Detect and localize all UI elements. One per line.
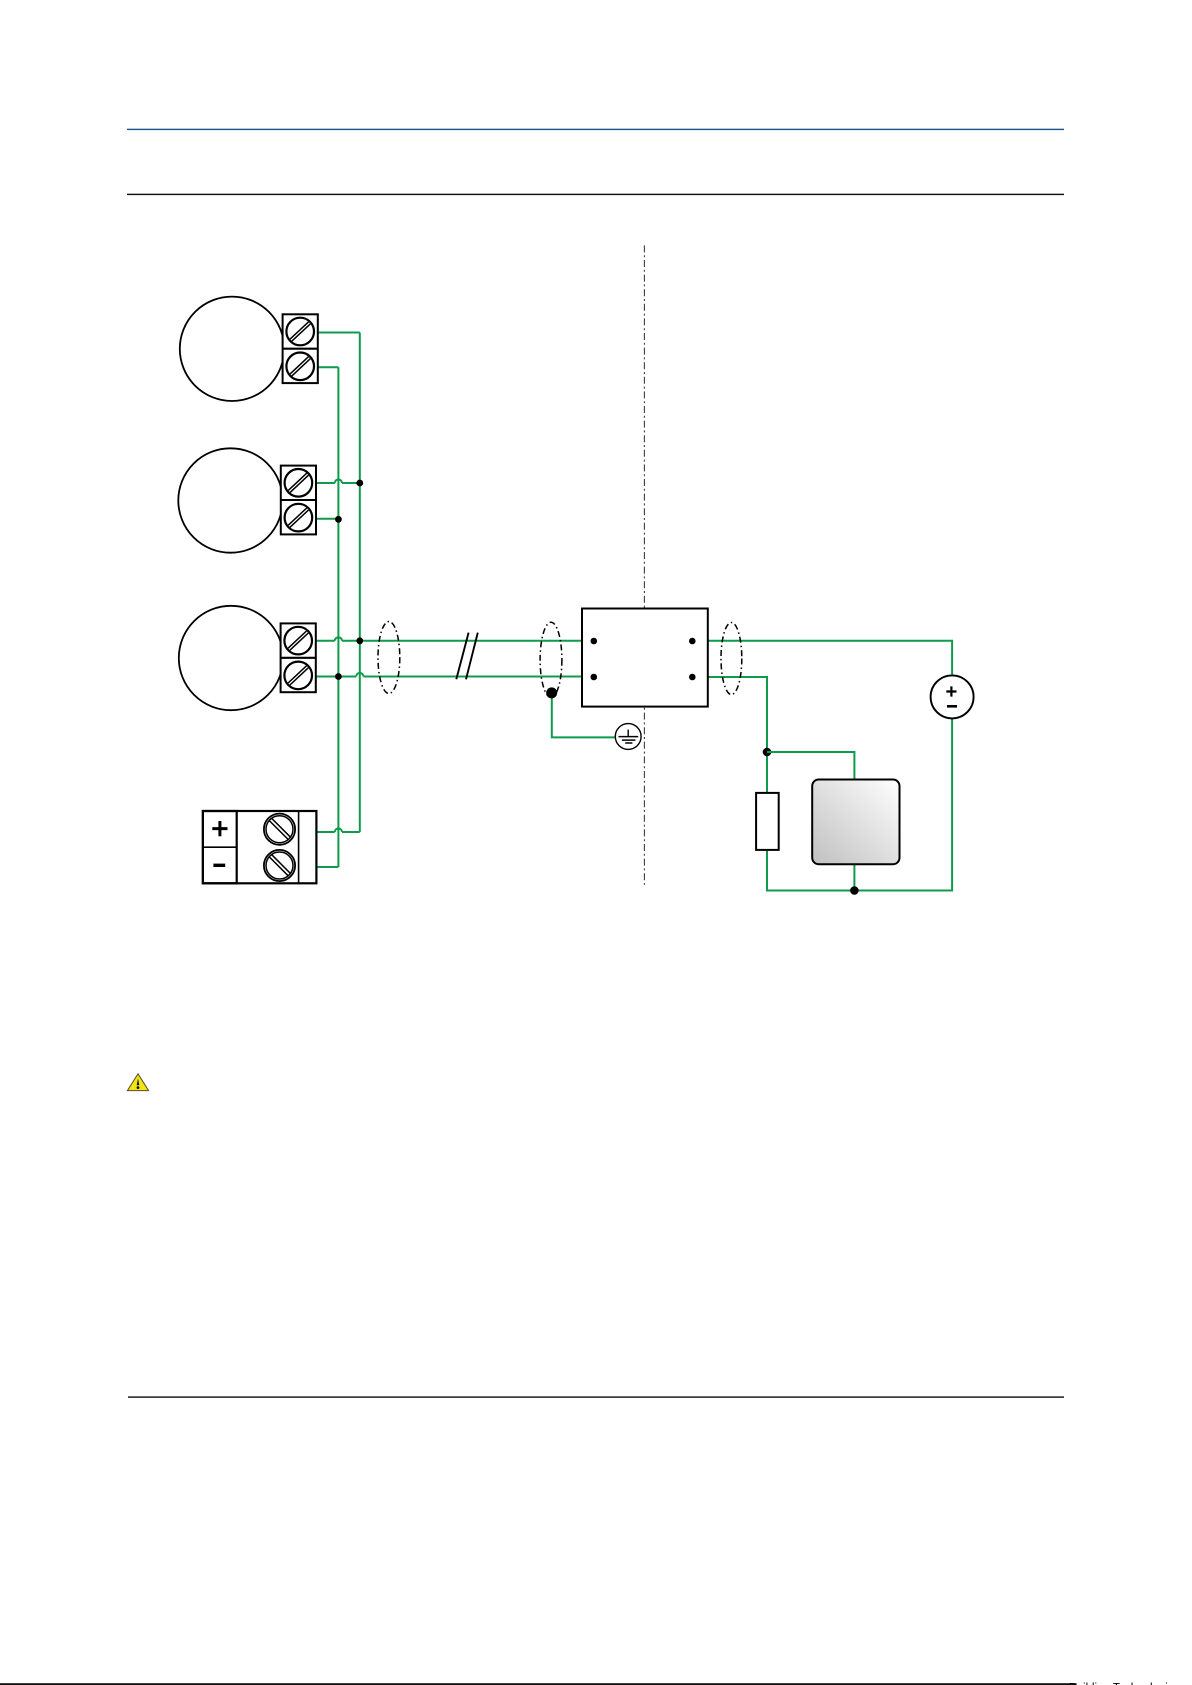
wire: detector3 bottom terminal, hop over bus B, through shield to box	[316, 673, 582, 677]
pin 1	[591, 638, 598, 645]
junction: detector2 top on bus B	[356, 480, 363, 487]
wire: box right top to battery +	[708, 641, 952, 676]
wire: resistor bottom to bottom rail	[767, 850, 854, 891]
screw terminal -	[264, 850, 295, 881]
footer rule	[128, 1396, 1064, 1397]
wire: shield drain to earth	[552, 693, 616, 737]
battery / DC source G1	[931, 675, 974, 718]
junction box / transition unit	[582, 609, 708, 707]
junction: detector3 bottom on bus A	[335, 673, 342, 680]
label +	[212, 821, 227, 836]
warning triangle	[127, 1074, 148, 1091]
wire: node to load top	[767, 752, 854, 780]
centerline (system boundary, dash-dot)	[643, 245, 645, 884]
load / device block	[812, 780, 899, 865]
wire: box right bottom down to resistor	[708, 677, 767, 793]
wire: detector1 bottom terminal to bus A	[318, 366, 339, 368]
detector circle D1	[180, 297, 284, 401]
cable break	[456, 633, 478, 680]
page bottom edge	[0, 1683, 1077, 1685]
wire: supply + with hop over bus A to bus B	[316, 828, 359, 832]
label -	[213, 864, 225, 867]
wire: bus A vertical (zone -)	[337, 367, 339, 867]
junction: detector2 bottom on bus A	[335, 516, 342, 523]
wire: load bottom to bottom rail	[853, 864, 855, 890]
shield ellipse S2	[540, 622, 562, 697]
header rule black	[127, 194, 1064, 195]
junction: resistor/load node	[763, 748, 772, 757]
wire: detector2 bottom terminal to bus A	[316, 518, 338, 520]
wire: detector2 top terminal, hop over bus A, to bus B	[316, 479, 359, 483]
detector circle D2	[178, 448, 282, 552]
wire: supply - to bus A	[316, 866, 338, 868]
power supply terminal block	[203, 811, 317, 883]
detector circle D3	[179, 606, 283, 710]
shield ellipse S3	[721, 623, 742, 695]
junction: bottom rail at load	[850, 886, 859, 895]
terminal block X1	[283, 314, 318, 383]
wire: detector3 top terminal, hop over bus A, through shield to box	[316, 637, 582, 641]
pin 2	[591, 674, 598, 681]
terminal block X3	[281, 623, 316, 692]
resistor R1 (EOL)	[756, 793, 779, 850]
screw terminal +	[264, 814, 295, 845]
header rule blue	[127, 129, 1064, 130]
pin 4	[689, 674, 696, 681]
junction: shield drain tap	[546, 687, 557, 698]
wire: battery - to bottom rail	[854, 718, 952, 890]
protective earth symbol	[615, 724, 641, 750]
wire: bus B vertical (zone +)	[359, 333, 361, 833]
wire: detector1 top terminal to bus B	[318, 332, 360, 334]
shield ellipse S1	[378, 622, 400, 694]
junction: detector3 top on bus B	[356, 637, 363, 644]
terminal block X2	[281, 466, 316, 535]
pin 3	[689, 638, 696, 645]
